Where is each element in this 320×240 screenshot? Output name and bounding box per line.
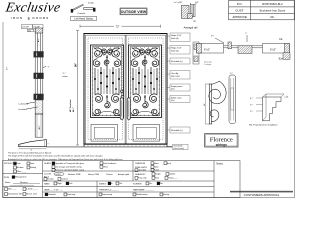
svg-text:RO87296CL8L2: RO87296CL8L2 — [262, 2, 283, 6]
svg-text:SCREEN: SCREEN — [133, 184, 142, 186]
svg-text:GOLD: GOLD — [55, 174, 61, 176]
svg-text:72": 72" — [116, 24, 120, 28]
svg-text:GLASS: GLASS — [44, 162, 51, 165]
svg-text:Standard (1 3/4"): Standard (1 3/4") — [8, 193, 23, 196]
svg-text:DEADBOLT: DEADBOLT — [135, 173, 146, 176]
svg-text:8'0": 8'0" — [7, 66, 9, 70]
svg-text:1/2": 1/2" — [195, 2, 199, 4]
svg-text:Out: Out — [119, 182, 123, 185]
svg-text:P.O.: P.O. — [237, 2, 243, 6]
svg-text:The door is 72 in all, provide: The door is 72 in all, provided they are… — [8, 151, 52, 154]
svg-text:(2x): (2x) — [171, 100, 175, 102]
svg-text:Patina ___: Patina ___ — [168, 176, 178, 179]
svg-text:Window: Window — [16, 167, 24, 169]
svg-text:48" Doorlock: 48" Doorlock — [69, 99, 72, 112]
svg-text:Left: Left — [69, 182, 73, 185]
svg-text:4 Jamb ____: 4 Jamb ____ — [26, 189, 38, 191]
svg-text:Roller catch: Roller catch — [171, 97, 182, 100]
svg-text:Medium 709B: Medium 709B — [68, 174, 81, 176]
svg-text:The height of 96 in with the t: The height of 96 in with the thresholds … — [8, 155, 103, 158]
svg-text:Antique gold: Antique gold — [118, 173, 129, 176]
svg-text:SWING: SWING — [99, 184, 106, 186]
svg-text:Scratch: Scratch — [47, 178, 54, 181]
svg-text:CUST.: CUST. — [235, 8, 244, 12]
svg-text:Heavy 709B: Heavy 709B — [88, 174, 100, 176]
svg-text:Railing: Railing — [30, 167, 36, 169]
svg-text:2x6 DF: 2x6 DF — [22, 27, 29, 29]
svg-text:Right: Right — [57, 182, 62, 185]
svg-text:One dlg:: One dlg: — [171, 73, 179, 75]
svg-text:Hinge 4"x4": Hinge 4"x4" — [171, 35, 182, 37]
svg-text:A detailed list for sellers on: A detailed list for sellers on sales fro… — [8, 158, 123, 161]
svg-text:APPROVE: APPROVE — [232, 15, 247, 19]
svg-text:¾": ¾" — [47, 142, 49, 145]
svg-text:Doorstop: Doorstop — [67, 193, 76, 196]
svg-text:COLOR: COLOR — [44, 173, 52, 175]
svg-text:Hinge 4"x4": Hinge 4"x4" — [171, 48, 182, 50]
svg-text:JAMB ___ 4 1/2" ___: JAMB ___ 4 1/2" ___ — [44, 188, 64, 191]
svg-text:THRESHOLD ______: THRESHOLD ______ — [99, 189, 119, 191]
svg-text:Name: Name — [5, 182, 11, 184]
svg-text:(2x): (2x) — [171, 89, 175, 91]
svg-text:RL: RL — [270, 15, 274, 19]
svg-text:Int.: Int. — [279, 37, 283, 41]
svg-text:American standard double swing: American standard double swing — [55, 168, 84, 171]
svg-text:OUTSIDE VIEW: OUTSIDE VIEW — [121, 10, 147, 14]
svg-text:Empty space: Empty space — [171, 85, 183, 88]
svg-text:below: below — [63, 76, 69, 78]
svg-text:Flushbolt (in): Flushbolt (in) — [171, 129, 183, 132]
svg-text:Yes: Yes — [149, 183, 152, 185]
svg-text:curb: curb — [285, 96, 289, 99]
svg-text:Operable w/ Tempered dbl. glas: Operable w/ Tempered dbl. glass — [55, 163, 84, 165]
svg-text:Outside: Outside — [78, 12, 86, 15]
svg-text:Sweep: Sweep — [163, 194, 170, 196]
svg-text:Satin (6): Satin (6) — [171, 49, 179, 52]
svg-text:HARDWARE ________: HARDWARE ________ — [133, 188, 155, 191]
svg-text:Slim ____: Slim ____ — [8, 189, 18, 191]
svg-text:Arch: Arch — [167, 162, 171, 165]
svg-text:CUSTOMERS APPROVAL: CUSTOMERS APPROVAL — [244, 193, 280, 197]
svg-text:Satin (6): Satin (6) — [171, 37, 179, 40]
svg-text:Left Hand Swing: Left Hand Swing — [74, 18, 93, 21]
svg-text:Doorsweep: Doorsweep — [102, 194, 113, 196]
svg-text:Door: Door — [16, 163, 21, 165]
svg-text:w/rings: w/rings — [215, 143, 227, 147]
svg-text:Prep only: Prep only — [138, 177, 146, 179]
svg-text:Other: Other — [103, 165, 108, 168]
svg-text:Exclusive: Exclusive — [4, 0, 62, 15]
svg-text:w/o storage and double swing: w/o storage and double swing — [55, 165, 81, 168]
svg-text:6"x2": 6"x2" — [270, 48, 276, 52]
svg-text:Doorbolt: Doorbolt — [48, 193, 56, 196]
svg-text:~1": ~1" — [47, 67, 50, 69]
svg-text:IRON: IRON — [11, 16, 23, 20]
svg-text:Flushbolt (in): Flushbolt (in) — [171, 60, 183, 63]
svg-text:Std. Preparation for installat: Std. Preparation for installation — [249, 124, 278, 127]
svg-text:1¼": 1¼" — [250, 110, 254, 113]
svg-text:Fixed: Fixed — [154, 170, 159, 172]
svg-text:44¾": 44¾" — [72, 107, 75, 112]
svg-text:Laminated: Laminated — [19, 103, 28, 106]
svg-text:(One Level): (One Level) — [173, 148, 184, 150]
svg-text:Operable: Operable — [138, 170, 147, 172]
svg-text:Astragal rail: Astragal rail — [184, 26, 198, 30]
svg-text:IRON: IRON — [4, 177, 10, 179]
svg-text:Rust: Rust — [155, 176, 160, 179]
svg-text:11": 11" — [204, 103, 206, 106]
svg-text:Other ____: Other ____ — [16, 170, 27, 173]
svg-text:Inside: Inside — [88, 2, 95, 4]
svg-text:Charter: Charter — [106, 173, 113, 176]
svg-text:Double: Double — [169, 174, 176, 176]
svg-text:4¾": 4¾" — [38, 126, 41, 130]
svg-text:¾x¾x1/8": ¾x¾x1/8" — [173, 1, 182, 4]
svg-text:Steel hardware: Steel hardware — [103, 162, 117, 165]
svg-text:HAND: HAND — [44, 183, 50, 186]
svg-text:TRANSOM: TRANSOM — [135, 162, 145, 165]
svg-text:Exclusive Iron Doors: Exclusive Iron Doors — [260, 8, 286, 12]
svg-text:1 col/pair: 1 col/pair — [204, 64, 212, 66]
svg-text:4": 4" — [31, 150, 33, 152]
svg-text:§: § — [28, 16, 30, 21]
svg-text:7/8": 7/8" — [193, 21, 197, 23]
svg-text:PRODUCT: PRODUCT — [4, 163, 15, 165]
svg-text:5¼": 5¼" — [211, 34, 215, 37]
svg-text:Wrought Iron: Wrought Iron — [15, 176, 27, 179]
svg-text:Weatherstrip: Weatherstrip — [136, 193, 148, 196]
svg-text:Notes: Notes — [216, 163, 223, 166]
svg-text:Custom: Custom — [61, 178, 68, 181]
svg-text:#: # — [21, 184, 22, 186]
svg-text:6"x2": 6"x2" — [204, 48, 210, 52]
svg-text:Slim (1 1/2"): Slim (1 1/2") — [26, 194, 37, 196]
svg-text:P.M. 12x2: P.M. 12x2 — [171, 76, 181, 78]
svg-text:Single: Single — [155, 174, 161, 176]
svg-text:1": 1" — [245, 33, 247, 35]
svg-text:Insulated: Insulated — [19, 108, 27, 111]
svg-text:DOORS: DOORS — [33, 16, 50, 20]
svg-text:In: In — [111, 183, 113, 185]
